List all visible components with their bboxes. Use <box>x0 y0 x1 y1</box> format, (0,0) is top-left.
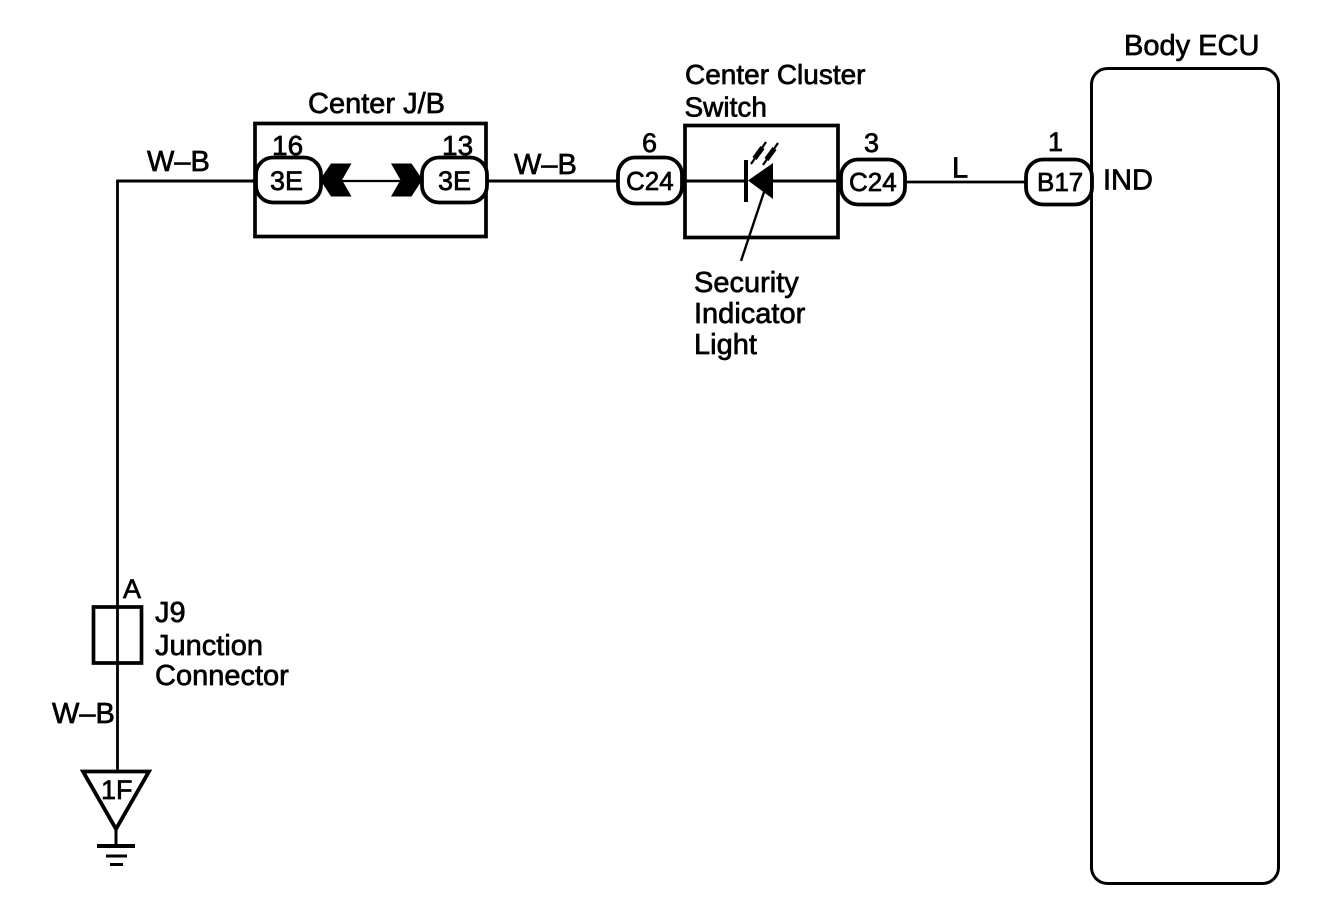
wire inside switch left of LED <box>682 180 746 183</box>
wire W-B horizontal to Center J/B <box>116 180 256 183</box>
svg-text:Light: Light <box>694 329 757 361</box>
svg-text:Switch: Switch <box>685 92 767 123</box>
label Security Indicator Light <box>694 267 806 361</box>
svg-text:Center J/B: Center J/B <box>308 88 445 120</box>
svg-text:L: L <box>952 153 968 185</box>
ground connector 1F triangle <box>83 772 149 830</box>
leader line to Security Indicator Light <box>741 189 765 261</box>
svg-text:6: 6 <box>642 128 657 158</box>
wire between arrows <box>342 180 401 182</box>
svg-text:3: 3 <box>864 128 879 158</box>
wire L to B17 <box>905 181 1028 184</box>
connector C24 pin 3 <box>841 160 905 205</box>
junction connector J9 <box>94 607 142 663</box>
LED security indicator <box>746 142 778 202</box>
svg-text:A: A <box>123 574 141 604</box>
ECU box Body ECU <box>1092 69 1279 884</box>
svg-text:Security: Security <box>694 267 799 299</box>
svg-text:1: 1 <box>1048 127 1063 157</box>
svg-text:Connector: Connector <box>155 660 289 692</box>
svg-text:Junction: Junction <box>155 630 263 662</box>
svg-text:C24: C24 <box>626 166 674 196</box>
svg-text:1F: 1F <box>101 775 133 805</box>
connector C24 pin 6 <box>618 158 682 204</box>
connector B17 <box>1026 160 1092 205</box>
connector 3E pin 16 <box>256 158 321 203</box>
svg-text:3E: 3E <box>438 166 471 196</box>
box Center Cluster Switch <box>685 126 838 238</box>
wire from LED to C24 pin 3 <box>773 180 843 183</box>
svg-text:IND: IND <box>1103 165 1153 197</box>
wire W-B vertical down-leg <box>116 181 119 771</box>
ground <box>97 829 135 865</box>
wire W-B to C24 pin 6 <box>486 180 620 183</box>
svg-text:W–B: W–B <box>147 146 210 178</box>
label J9 Junction Connector <box>155 597 289 692</box>
svg-text:W–B: W–B <box>52 698 115 730</box>
svg-text:Indicator: Indicator <box>694 298 806 330</box>
connector arrow left <box>320 164 352 197</box>
svg-text:Body ECU: Body ECU <box>1124 30 1259 62</box>
label Center Cluster Switch <box>685 59 866 123</box>
svg-text:B17: B17 <box>1037 167 1083 197</box>
svg-text:C24: C24 <box>849 167 897 197</box>
svg-text:W–B: W–B <box>514 149 577 181</box>
svg-text:Center Cluster: Center Cluster <box>685 59 866 90</box>
junction box Center J/B <box>255 124 486 237</box>
svg-text:3E: 3E <box>270 166 303 196</box>
wire through J9 <box>116 607 119 663</box>
svg-text:J9: J9 <box>155 597 186 629</box>
connector 3E pin 13 <box>422 158 487 203</box>
connector arrow right <box>391 164 423 197</box>
